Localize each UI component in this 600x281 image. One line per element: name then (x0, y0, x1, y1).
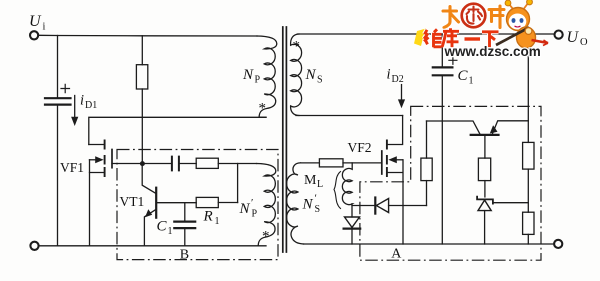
svg-text:D2: D2 (392, 74, 404, 85)
svg-text:M: M (304, 173, 317, 188)
svg-text:O: O (580, 37, 588, 48)
svg-text:A: A (391, 246, 402, 261)
svg-text:i: i (80, 93, 84, 109)
svg-text:′: ′ (315, 193, 317, 205)
svg-text:B: B (180, 247, 189, 262)
svg-text:R: R (203, 209, 213, 225)
svg-text:www.dzsc.com: www.dzsc.com (444, 44, 541, 59)
svg-text:*: * (259, 101, 267, 117)
svg-text:N: N (242, 67, 254, 83)
svg-text:1: 1 (168, 226, 173, 237)
svg-text:P: P (252, 209, 258, 220)
svg-text:1: 1 (215, 216, 220, 227)
svg-text:1: 1 (469, 76, 474, 87)
svg-text:U: U (567, 29, 580, 46)
svg-text:VF1: VF1 (60, 160, 84, 175)
svg-text:S: S (315, 204, 321, 215)
svg-text:P: P (255, 75, 261, 86)
svg-text:L: L (317, 179, 323, 190)
svg-text:S: S (317, 75, 323, 86)
svg-text:N: N (239, 201, 251, 217)
svg-text:*: * (293, 39, 301, 55)
svg-text:VT1: VT1 (120, 194, 145, 209)
svg-text:′: ′ (251, 197, 253, 209)
svg-text:VF2: VF2 (348, 140, 372, 155)
svg-text:i: i (387, 67, 391, 83)
svg-text:U: U (29, 13, 42, 30)
svg-text:N: N (302, 197, 314, 213)
svg-text:D1: D1 (85, 100, 97, 111)
svg-text:i: i (43, 22, 46, 33)
svg-text:N: N (305, 67, 317, 83)
svg-text:*: * (262, 229, 270, 245)
svg-text:C: C (157, 219, 168, 235)
svg-text:C: C (458, 68, 469, 84)
